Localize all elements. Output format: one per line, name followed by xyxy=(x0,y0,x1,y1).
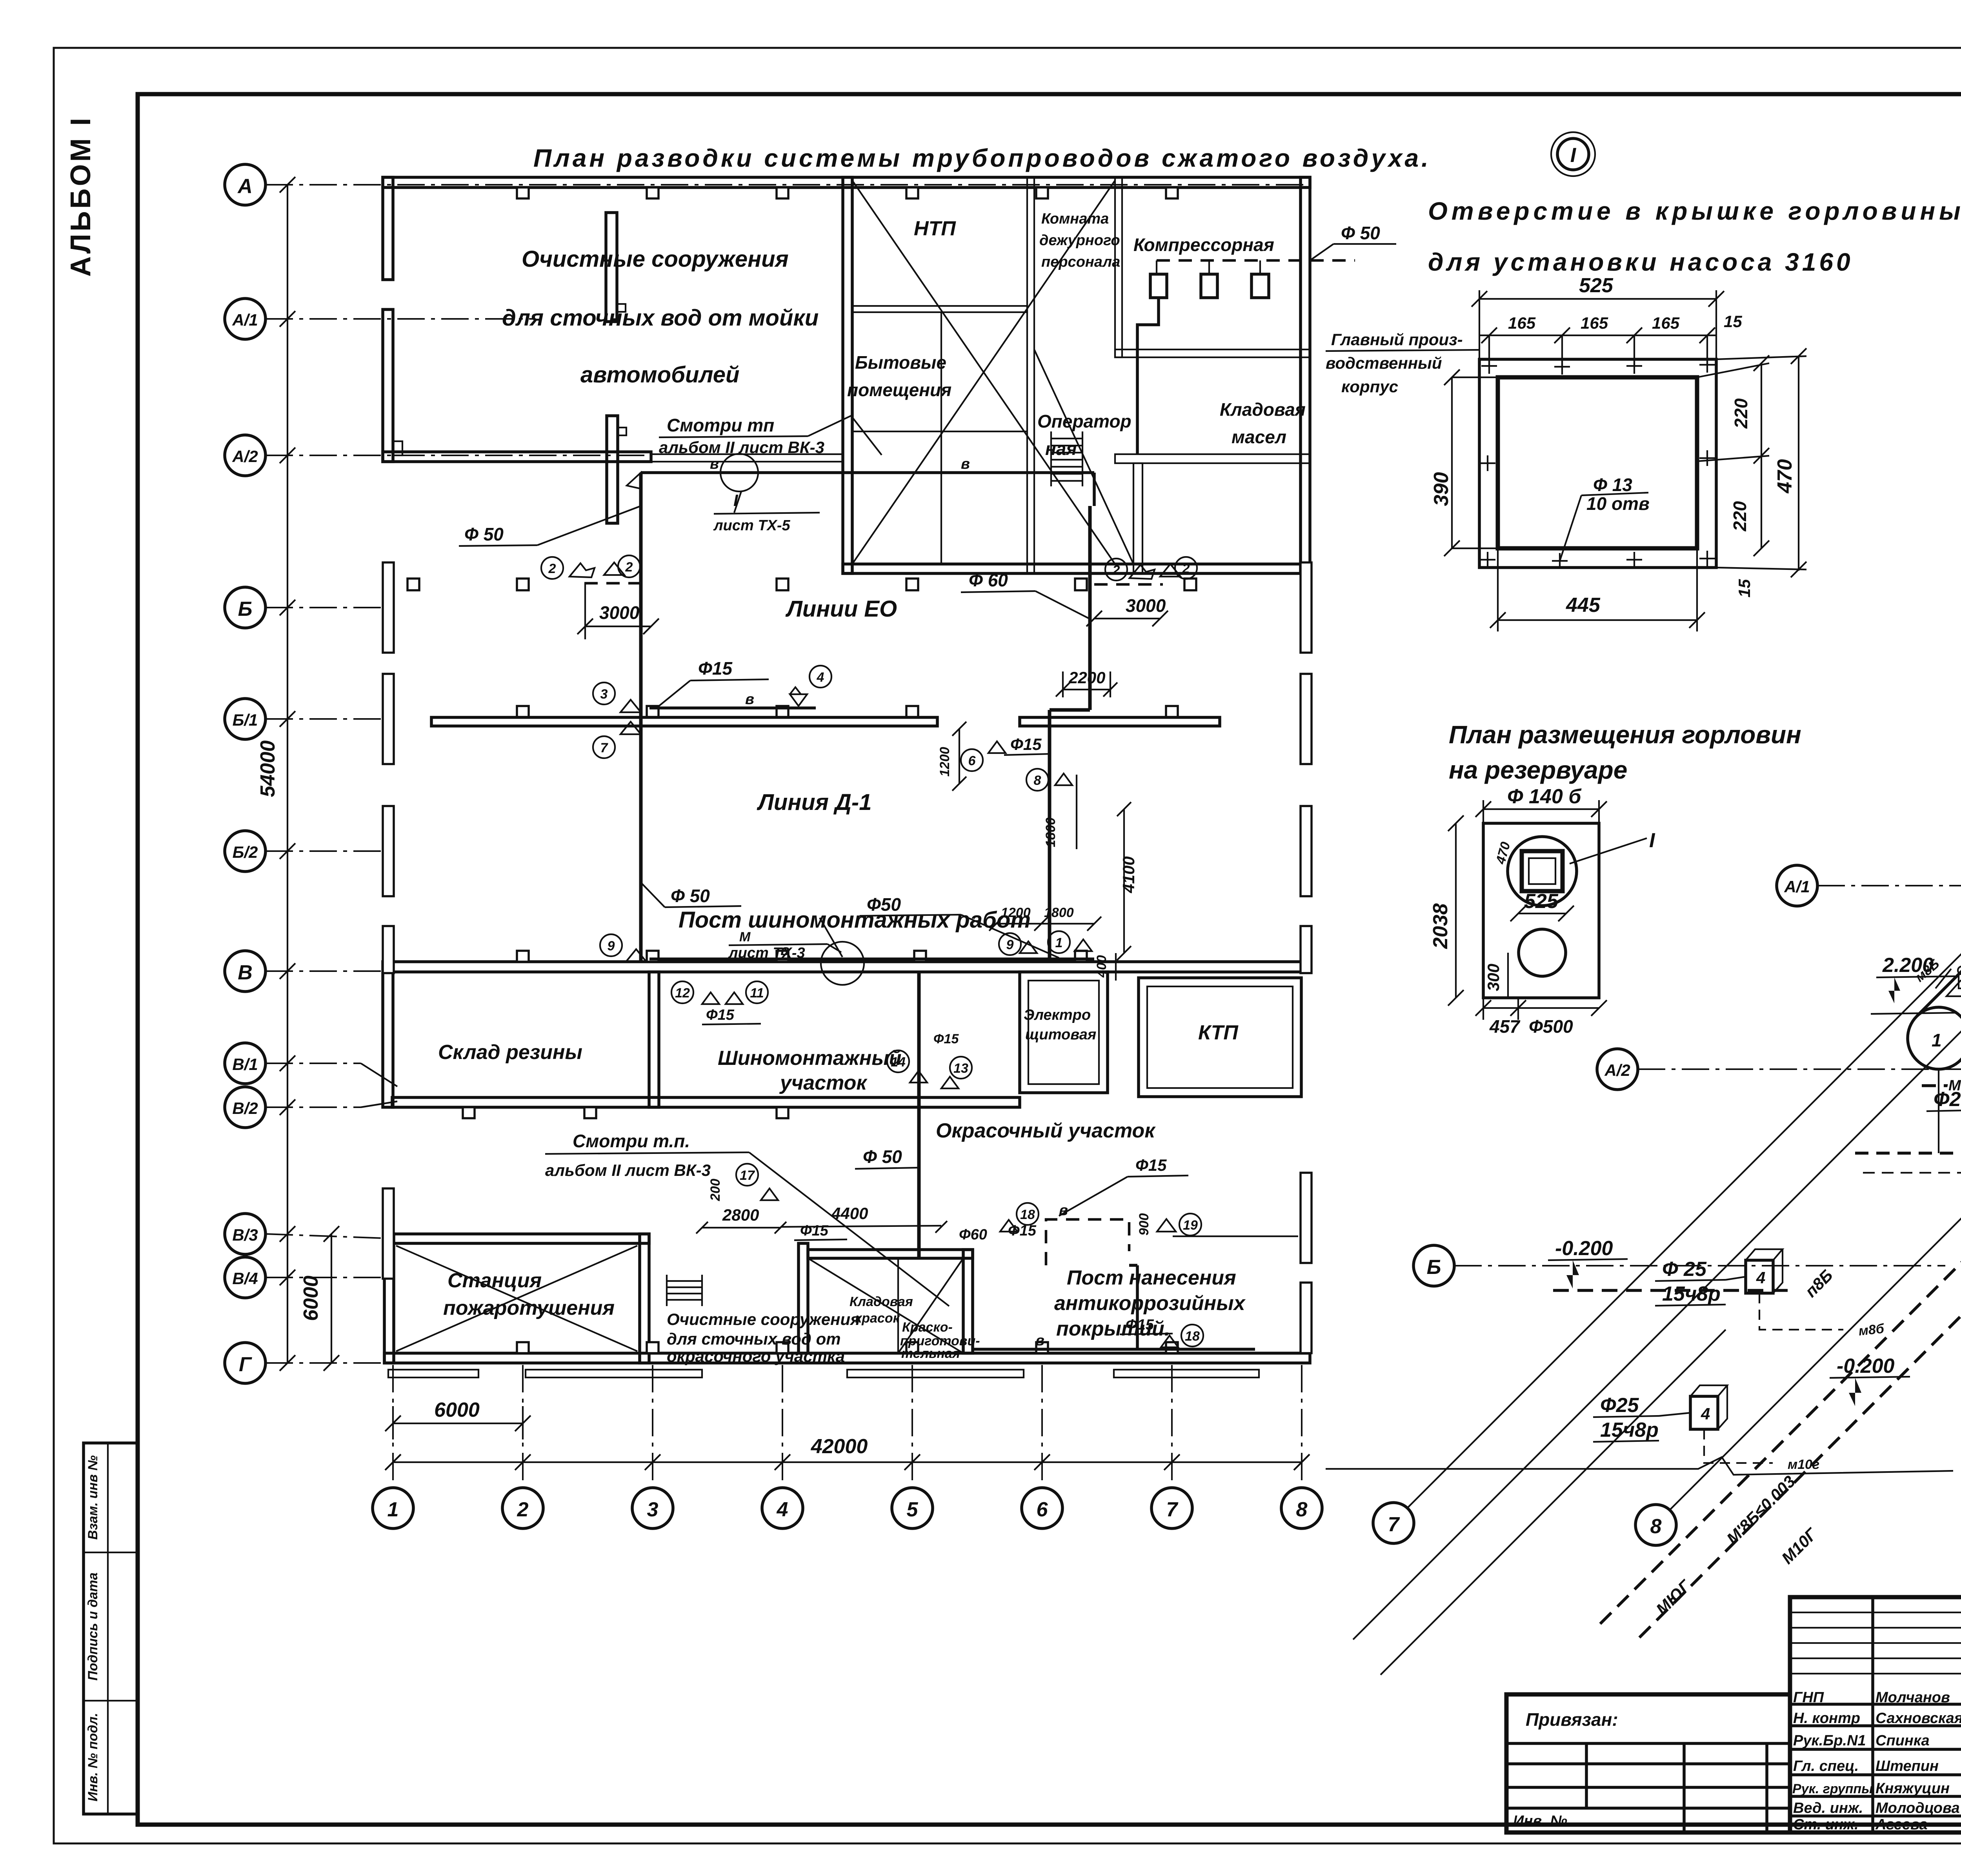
left wall tyre store xyxy=(383,962,393,1107)
wall at V/2 xyxy=(392,1097,1020,1107)
neck square xyxy=(1522,851,1563,891)
partition slab 1 in north room xyxy=(606,213,617,322)
flag 2a xyxy=(541,557,563,579)
dim 220 220 xyxy=(1761,363,1762,548)
NTP inner partition xyxy=(852,306,1027,312)
left edge wall stubs xyxy=(383,562,394,653)
svg-text:4: 4 xyxy=(1756,1268,1765,1287)
svg-text:пожаротушения: пожаротушения xyxy=(443,1297,615,1319)
svg-text:4: 4 xyxy=(817,670,824,685)
svg-text:Краско-: Краско- xyxy=(902,1320,953,1335)
svg-text:I: I xyxy=(1649,829,1655,852)
column circle 8 xyxy=(1281,1488,1322,1528)
svg-text:в: в xyxy=(961,456,970,472)
axis circle V/4 xyxy=(225,1257,266,1298)
svg-text:1200: 1200 xyxy=(1001,905,1031,920)
svg-text:для сточных вод от: для сточных вод от xyxy=(667,1330,841,1348)
dashed level line left xyxy=(1553,1289,1788,1292)
small empty rows top-left xyxy=(1790,1612,1961,1613)
bathroom partitions xyxy=(940,312,942,564)
valve group below V at col4 xyxy=(671,981,693,1003)
pilasters under wall A xyxy=(517,187,529,198)
opening outline xyxy=(1498,377,1697,548)
left wall north room lower xyxy=(383,309,393,462)
east edge wall stubs xyxy=(1301,562,1312,653)
axis line A/2 xyxy=(266,455,651,456)
svg-text:15ч8р: 15ч8р xyxy=(1600,1419,1659,1441)
iso axis circle 8 xyxy=(1635,1505,1676,1545)
side table frame xyxy=(84,1443,138,1814)
dashed stub row B right xyxy=(1094,583,1163,586)
svg-text:2: 2 xyxy=(548,561,556,576)
bolt holes top xyxy=(1480,357,1715,569)
svg-text:М: М xyxy=(739,930,751,944)
partition deputy room xyxy=(1115,177,1122,357)
svg-text:7: 7 xyxy=(1388,1513,1400,1536)
left wall north room upper xyxy=(383,177,393,280)
svg-text:в: в xyxy=(710,456,719,472)
svg-text:А/1: А/1 xyxy=(232,311,258,329)
svg-text:Б: Б xyxy=(238,598,253,620)
svg-text:м8б: м8б xyxy=(1858,1321,1885,1339)
svg-text:Агеева: Агеева xyxy=(1875,1816,1928,1833)
svg-text:Вед. инж.: Вед. инж. xyxy=(1793,1800,1863,1816)
KTP room outer xyxy=(1139,978,1301,1097)
tank 1 end circle xyxy=(1908,1007,1961,1069)
axis line V xyxy=(266,970,396,972)
pilasters above wall G xyxy=(517,1342,529,1353)
axis A/2 iso xyxy=(1597,1049,1638,1090)
axis line B/2 xyxy=(266,850,396,852)
svg-text:9: 9 xyxy=(1006,937,1014,952)
svg-text:8: 8 xyxy=(1034,773,1041,788)
top wall axis A xyxy=(383,177,1310,187)
svg-text:2: 2 xyxy=(517,1498,529,1521)
svg-text:Очистные сооружения: Очистные сооружения xyxy=(522,246,789,272)
fire station top wall xyxy=(384,1234,649,1243)
axis circle A xyxy=(225,164,266,205)
left wall nib xyxy=(393,441,402,455)
svg-text:Компрессорная: Компрессорная xyxy=(1133,235,1274,255)
svg-text:4400: 4400 xyxy=(831,1204,868,1223)
thin wall A/2 continuation xyxy=(651,454,843,462)
svg-text:19: 19 xyxy=(1183,1218,1198,1233)
svg-text:Б: Б xyxy=(1427,1256,1441,1279)
iso ground line with break xyxy=(1326,1457,1953,1475)
svg-text:А/2: А/2 xyxy=(232,447,258,466)
center block bottom wall xyxy=(843,564,1310,573)
free columns row B xyxy=(407,579,419,590)
svg-text:Спинка: Спинка xyxy=(1876,1732,1930,1749)
svg-text:А/1: А/1 xyxy=(1784,877,1810,896)
wall at A/2 (bottom of north-left room) xyxy=(383,452,651,462)
riser 2 xyxy=(1088,506,1092,710)
axis circle B xyxy=(225,587,266,628)
big neck circle xyxy=(1508,837,1577,906)
axis circle V xyxy=(225,951,266,992)
column circle 2 xyxy=(502,1488,543,1528)
svg-text:План разводки системы трубо: План разводки системы трубопроводов сжат… xyxy=(533,144,1431,172)
svg-text:Ф 13: Ф 13 xyxy=(1593,475,1632,495)
svg-text:4: 4 xyxy=(777,1498,788,1521)
svg-text:Инв. №: Инв. № xyxy=(1513,1813,1567,1829)
fire station cross xyxy=(396,1246,637,1351)
svg-text:Пост шиномонтажных работ: Пост шиномонтажных работ xyxy=(679,907,1031,933)
svg-text:А/2: А/2 xyxy=(1604,1061,1630,1079)
circled I marker xyxy=(1557,138,1589,170)
17 circle + dims xyxy=(736,1164,758,1186)
KTP room inner xyxy=(1147,986,1293,1088)
svg-text:на резервуаре: на резервуаре xyxy=(1449,756,1627,784)
svg-text:для сточных вод от мойки: для сточных вод от мойки xyxy=(502,305,819,331)
F15 valve group at B/1 left xyxy=(593,682,615,704)
svg-text:1200: 1200 xyxy=(937,747,952,777)
tank risers down xyxy=(1938,1069,1939,1153)
columns at B/1 wall xyxy=(517,706,529,717)
axis line V/2 xyxy=(266,1106,361,1108)
svg-text:Ф25: Ф25 xyxy=(1600,1394,1639,1417)
wall at B/1 right segment xyxy=(1020,717,1220,726)
svg-text:3000: 3000 xyxy=(599,602,640,623)
dim F140b xyxy=(1483,808,1599,810)
iso diagonal 7 xyxy=(1407,903,1961,1508)
wall under compressor room xyxy=(1115,349,1310,357)
svg-text:2: 2 xyxy=(1182,561,1190,576)
svg-text:окрасочного участка: окрасочного участка xyxy=(667,1347,845,1365)
svg-text:АЛЬБОМ I: АЛЬБОМ I xyxy=(65,116,96,277)
svg-text:Смотри т.п.: Смотри т.п. xyxy=(573,1131,690,1151)
svg-text:17: 17 xyxy=(740,1168,755,1183)
svg-text:Штепин: Штепин xyxy=(1876,1758,1939,1774)
6000 left vertical dim xyxy=(331,1234,332,1363)
svg-text:2.200: 2.200 xyxy=(1882,954,1934,977)
porch strip 4 below G xyxy=(1114,1370,1259,1377)
left margin table xyxy=(84,1443,138,1814)
iso diagonal 8 xyxy=(1670,905,1961,1510)
svg-text:Ф 50: Ф 50 xyxy=(671,886,710,906)
bottom dim 42000 (cols 1-8) xyxy=(393,1461,1302,1463)
svg-text:11: 11 xyxy=(750,986,764,1001)
long grade diagonal xyxy=(1353,808,1961,1639)
svg-text:3000: 3000 xyxy=(1126,595,1166,616)
svg-text:220: 220 xyxy=(1731,398,1751,429)
svg-text:План размещения горловин: План размещения горловин xyxy=(1449,721,1801,749)
TITLE BLOCK xyxy=(1790,1597,1961,1833)
dim 457 F500 xyxy=(1483,1007,1599,1009)
axis circle V/2 xyxy=(225,1087,266,1128)
svg-text:Ф15: Ф15 xyxy=(698,658,733,679)
svg-text:525: 525 xyxy=(1524,890,1559,913)
svg-text:Ф15: Ф15 xyxy=(800,1223,829,1239)
dashed stub row B left xyxy=(584,582,641,585)
svg-text:Ф60: Ф60 xyxy=(959,1226,987,1243)
axis circle B/1 xyxy=(225,699,266,739)
svg-text:антикоррозийных: антикоррозийных xyxy=(1054,1292,1246,1315)
east wall of building xyxy=(1301,177,1310,573)
dim 2800 xyxy=(702,1227,780,1228)
wall at V xyxy=(392,962,1310,972)
svg-text:альбом II лист ВК-3: альбом II лист ВК-3 xyxy=(545,1161,711,1179)
svg-text:Ф 50: Ф 50 xyxy=(1341,223,1380,243)
column circle 1 xyxy=(373,1488,413,1528)
svg-text:Инв. № подл.: Инв. № подл. xyxy=(85,1713,100,1801)
dim 3000 left xyxy=(585,626,651,627)
svg-text:6: 6 xyxy=(968,753,976,768)
svg-text:15ч8р: 15ч8р xyxy=(1662,1283,1721,1305)
axis circle V/1 xyxy=(225,1043,266,1084)
svg-text:Ф 140 б: Ф 140 б xyxy=(1507,785,1582,808)
dim 525 xyxy=(1479,298,1716,300)
svg-text:Ф15: Ф15 xyxy=(706,1007,735,1023)
svg-text:дежурного: дежурного xyxy=(1039,232,1120,249)
pipe down to paint area xyxy=(917,972,921,1258)
column circle 5 xyxy=(892,1488,933,1528)
svg-text:-0.200: -0.200 xyxy=(1837,1355,1895,1377)
svg-text:Молодцова: Молодцова xyxy=(1876,1800,1960,1816)
fire station right wall xyxy=(640,1234,649,1363)
svg-text:лист ТХ-5: лист ТХ-5 xyxy=(713,517,791,534)
valve at riser top xyxy=(627,473,641,489)
tank 1 body xyxy=(1917,925,1961,1016)
svg-text:помещения: помещения xyxy=(847,380,951,400)
oil storage left wall xyxy=(1133,463,1142,573)
axis circle A/1 xyxy=(225,298,266,339)
tyre store right wall xyxy=(649,972,659,1107)
svg-text:2200: 2200 xyxy=(1068,668,1105,687)
svg-text:14: 14 xyxy=(891,1055,906,1070)
dim 300 xyxy=(1507,953,1509,998)
svg-text:масел: масел xyxy=(1232,427,1286,447)
svg-text:Подпись и дата: Подпись и дата xyxy=(85,1572,100,1681)
paint prep right wall xyxy=(963,1250,973,1353)
svg-text:3: 3 xyxy=(600,687,608,702)
column circle 4 xyxy=(762,1488,803,1528)
circled 9 + valves near V xyxy=(999,933,1021,955)
svg-text:Ф15: Ф15 xyxy=(1135,1156,1167,1174)
svg-text:В: В xyxy=(238,961,253,984)
svg-text:Смотри тп: Смотри тп xyxy=(667,415,774,435)
axis line B/1 xyxy=(266,718,396,720)
svg-text:7: 7 xyxy=(600,741,609,755)
paint partition mid xyxy=(897,1258,899,1353)
svg-text:Гл. спец.: Гл. спец. xyxy=(1793,1758,1859,1774)
svg-text:В/1: В/1 xyxy=(232,1055,258,1074)
compressor 1 xyxy=(1150,274,1167,298)
compressor feed dashed xyxy=(1157,259,1355,262)
paint store partition xyxy=(799,1243,808,1353)
dim 525 square xyxy=(1518,913,1566,914)
svg-text:участок: участок xyxy=(779,1072,868,1094)
dashed loop paint area xyxy=(1046,1219,1129,1265)
svg-text:Ф 60: Ф 60 xyxy=(969,570,1008,590)
svg-text:А: А xyxy=(237,175,253,198)
circled 8 + valve xyxy=(1026,769,1048,791)
svg-text:5: 5 xyxy=(907,1498,919,1521)
svg-text:1800: 1800 xyxy=(1043,817,1058,847)
svg-text:Ф500: Ф500 xyxy=(1529,1016,1573,1037)
electrical room outer xyxy=(1020,972,1108,1093)
svg-text:автомобилей: автомобилей xyxy=(580,362,739,388)
manhole circle on V wall xyxy=(821,942,864,985)
attach table frame xyxy=(1506,1694,1790,1832)
pipe along A/2 xyxy=(641,471,1094,474)
svg-text:12: 12 xyxy=(675,986,690,1001)
svg-text:15: 15 xyxy=(1735,579,1754,597)
compressor 3 xyxy=(1252,274,1269,298)
svg-text:I: I xyxy=(1570,144,1577,167)
svg-text:м10г: м10г xyxy=(1788,1457,1819,1472)
drain dashed M8 under tank1 xyxy=(1922,1084,1961,1087)
svg-text:Г: Г xyxy=(239,1353,252,1376)
svg-text:18: 18 xyxy=(1185,1329,1200,1344)
center block left wall xyxy=(843,177,852,573)
dim 4100 xyxy=(1123,809,1125,953)
circled 14 13 xyxy=(887,1050,909,1072)
svg-text:ная: ная xyxy=(1045,439,1077,459)
pipe from box1 xyxy=(1759,1293,1843,1330)
valves at riser1 bottom xyxy=(600,934,622,956)
svg-text:Взам. инв №: Взам. инв № xyxy=(85,1455,100,1539)
pilasters below V/2 wall xyxy=(463,1107,475,1118)
pipe from box2 xyxy=(1704,1429,1773,1463)
svg-text:4: 4 xyxy=(1701,1405,1710,1423)
svg-text:Ф15: Ф15 xyxy=(1126,1317,1154,1333)
svg-text:Н. контр: Н. контр xyxy=(1793,1710,1860,1727)
dim 165x3+15 xyxy=(1479,335,1716,336)
svg-text:1: 1 xyxy=(1932,1030,1942,1050)
svg-text:3: 3 xyxy=(647,1498,659,1521)
svg-text:Очистные сооружения: Очистные сооружения xyxy=(667,1310,860,1328)
svg-text:Б/1: Б/1 xyxy=(233,711,258,729)
svg-text:1800: 1800 xyxy=(1044,905,1074,920)
fire station left wall xyxy=(384,1234,394,1363)
svg-text:165: 165 xyxy=(1581,314,1608,332)
paint rooms top wall xyxy=(808,1250,973,1258)
stairs operator room xyxy=(1051,431,1082,486)
svg-text:2800: 2800 xyxy=(722,1206,759,1224)
svg-text:В/4: В/4 xyxy=(232,1269,258,1288)
column circle 6 xyxy=(1022,1488,1062,1528)
name rows xyxy=(1790,1703,1961,1706)
column circle 7 xyxy=(1151,1488,1192,1528)
columns at wall V xyxy=(517,951,529,962)
svg-text:тельная: тельная xyxy=(901,1346,960,1361)
svg-text:в: в xyxy=(780,942,789,959)
svg-text:в: в xyxy=(1035,1332,1044,1349)
svg-text:42000: 42000 xyxy=(811,1435,868,1458)
circled 6 + valve + F15 xyxy=(961,749,983,771)
svg-text:для установки насоса 3160: для установки насоса 3160 xyxy=(1428,248,1854,276)
long thin line to east pilaster xyxy=(1173,1236,1298,1237)
axis line B xyxy=(266,607,396,608)
svg-text:Главный произ-: Главный произ- xyxy=(1331,330,1463,349)
svg-text:2: 2 xyxy=(625,560,633,575)
svg-text:7: 7 xyxy=(1166,1498,1179,1521)
svg-text:Ст. инж.: Ст. инж. xyxy=(1793,1816,1859,1833)
svg-text:водственный: водственный xyxy=(1326,354,1442,372)
svg-text:13: 13 xyxy=(953,1061,968,1076)
tank plate xyxy=(1483,823,1599,998)
svg-text:Б/2: Б/2 xyxy=(233,843,258,861)
svg-text:54000: 54000 xyxy=(256,741,279,797)
axis line G xyxy=(266,1362,396,1364)
svg-text:9: 9 xyxy=(608,939,615,953)
svg-text:Привязан:: Привязан: xyxy=(1526,1709,1618,1730)
svg-text:8: 8 xyxy=(1296,1498,1308,1521)
compressor room bottom wall xyxy=(1115,454,1310,463)
partition NTP right xyxy=(1027,177,1034,573)
left dimension line 54000 xyxy=(287,185,288,1363)
svg-text:165: 165 xyxy=(1652,314,1680,332)
axis A/1 iso xyxy=(1777,865,1817,906)
svg-text:Ф15: Ф15 xyxy=(1010,735,1042,753)
electrical room inner xyxy=(1028,981,1099,1084)
svg-text:Окрасочный участок: Окрасочный участок xyxy=(936,1119,1156,1142)
svg-text:Княжуцин: Княжуцин xyxy=(1876,1780,1950,1797)
manhole circle on pipe xyxy=(720,454,758,491)
pipe into antiкор area xyxy=(1136,1265,1139,1349)
svg-text:Ф 25: Ф 25 xyxy=(1662,1258,1707,1281)
column circle 3 xyxy=(632,1488,673,1528)
svg-text:Ф15: Ф15 xyxy=(933,1032,959,1046)
iso axis circle 7 xyxy=(1373,1503,1414,1543)
svg-text:НТП: НТП xyxy=(914,217,956,240)
svg-text:щитовая: щитовая xyxy=(1025,1026,1096,1043)
dim 445 xyxy=(1498,619,1697,621)
svg-text:Отверстие в крышке горловины: Отверстие в крышке горловины xyxy=(1428,197,1961,225)
fill box 2 xyxy=(1690,1396,1718,1429)
svg-text:165: 165 xyxy=(1508,314,1536,332)
long dashed pipes down-left xyxy=(1600,1051,1961,1624)
dim 390 xyxy=(1451,377,1453,548)
svg-text:ГНП: ГНП xyxy=(1793,1689,1824,1706)
ATTACH TABLE (Привязан) xyxy=(1506,1694,1790,1832)
axis circle V/3 xyxy=(225,1214,266,1254)
big cross block 1 xyxy=(852,180,1115,564)
svg-text:300: 300 xyxy=(1484,964,1503,991)
svg-text:Линия Д-1: Линия Д-1 xyxy=(757,790,871,815)
svg-text:Оператор: Оператор xyxy=(1037,411,1131,431)
title block outer xyxy=(1790,1597,1961,1832)
svg-text:8: 8 xyxy=(1650,1515,1662,1538)
svg-text:200: 200 xyxy=(708,1179,723,1201)
svg-text:6000: 6000 xyxy=(300,1276,322,1321)
svg-text:Электро: Электро xyxy=(1024,1007,1091,1023)
svg-text:Ф 50: Ф 50 xyxy=(464,524,504,544)
svg-text:красок: красок xyxy=(855,1311,900,1326)
bottom pipe to east xyxy=(973,1348,1255,1351)
svg-text:Линии ЕО: Линии ЕО xyxy=(785,596,897,622)
svg-text:18: 18 xyxy=(1020,1207,1035,1222)
axis line V/3 xyxy=(266,1234,396,1239)
axis line A/1 xyxy=(266,318,533,320)
svg-text:Кладовая: Кладовая xyxy=(850,1294,913,1309)
svg-text:220: 220 xyxy=(1730,501,1750,531)
dim 3000 right xyxy=(1094,618,1160,619)
platform 2 tank1 xyxy=(1946,981,1961,996)
dim 2038 xyxy=(1455,823,1457,998)
bottom dim 6000 (cols 1-2) xyxy=(393,1423,523,1424)
wall at G xyxy=(384,1353,1310,1363)
svg-text:2: 2 xyxy=(1112,563,1120,578)
axis line V/1 xyxy=(266,1063,361,1064)
svg-text:Комната: Комната xyxy=(1041,211,1109,227)
svg-text:6: 6 xyxy=(1037,1498,1048,1521)
wall at B/1 left segment xyxy=(431,717,937,726)
axis circle B/2 xyxy=(225,831,266,872)
svg-text:Рук. группы: Рук. группы xyxy=(1792,1781,1873,1796)
axis line V/4 xyxy=(266,1277,396,1278)
